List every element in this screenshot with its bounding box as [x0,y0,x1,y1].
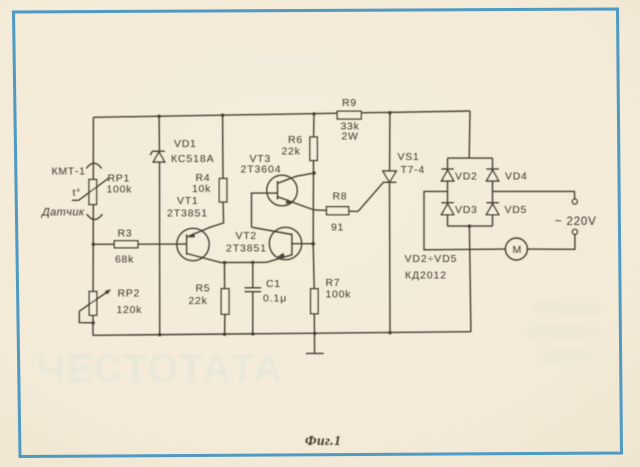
node dot R5 tap [223,261,226,264]
sensor enclosure top arc [86,163,101,168]
svg-text:t°: t° [73,187,82,199]
node dot VT3 collector [312,171,316,175]
transistor VT3 circle [267,175,298,206]
wire lower terminal to motor [527,234,575,249]
transistor VT2 circle [269,227,301,259]
diode VD5 [486,204,498,215]
VD1 zener tick [150,151,152,155]
wire R5 bottom [224,314,226,334]
svg-text:VD4: VD4 [505,171,528,183]
wire R4 to VT1 collector [187,202,224,237]
node dot top rail at VS1 [388,111,391,114]
svg-text:2Т3604: 2Т3604 [241,164,282,176]
svg-text:VD5: VD5 [505,204,528,216]
sensor enclosure bottom arc [87,214,103,219]
svg-text:VT1: VT1 [177,195,198,207]
svg-text:Датчик: Датчик [40,207,85,219]
VT2 base bar [291,233,293,255]
svg-text:10k: 10k [192,183,211,195]
node dot R3 left rail [92,243,95,246]
wire VT2 collector to VT3 base [252,193,278,227]
svg-text:КД2012: КД2012 [405,270,447,282]
node dot C1 tap [251,261,254,264]
svg-text:RP2: RP2 [118,288,141,300]
wire bridge right branch [492,158,494,226]
RP2 arrowhead [105,289,111,294]
svg-text:100k: 100k [326,289,352,301]
thyristor VS1 triangle [383,171,397,182]
VD1 cathode bar [152,150,164,152]
svg-text:R3: R3 [118,228,133,240]
VT3 base bar [277,181,279,200]
diode VD4 [486,170,498,181]
wire R6 bottom to VT2 base node [312,161,314,244]
svg-text:R7: R7 [326,277,341,289]
wire top rail [93,111,470,117]
node dot VT2 base [311,242,315,246]
svg-text:100k: 100k [107,184,133,196]
VD2 cathode bar [441,168,453,170]
svg-text:0.1μ: 0.1μ [263,293,287,305]
wire bridge left branch [447,158,449,226]
wire left rail lower [92,315,94,335]
wire top-right corner to bridge top [468,111,471,158]
VD3 cathode bar [441,202,453,204]
wire bridge bottom feed [469,226,471,332]
ground [306,352,324,354]
wire VS1 cathode down [389,182,392,332]
svg-text:VD2: VD2 [455,171,478,183]
svg-text:R9: R9 [342,97,357,109]
resistor R8 [327,207,349,215]
svg-text:Т7-4: Т7-4 [401,164,425,176]
wire left rail upper [92,117,94,179]
RP2 arrow diagonal [79,291,109,312]
node dot bridge bottom [468,224,471,227]
resistor R6 [310,137,317,161]
motor M [505,238,527,260]
wire C1 top lead [252,262,254,287]
VD4 cathode bar [486,168,498,170]
node dot bottom rail at VD1 [158,333,161,336]
svg-text:M: M [513,244,522,256]
capacitor C1 plates [245,287,262,289]
diode VD3 [441,204,453,215]
node dot bottom rail at C1 [251,332,254,335]
node dot RP2 wiper [92,321,95,324]
VD5 cathode bar [486,202,498,204]
VT1 base bar [186,234,188,254]
svg-text:R5: R5 [196,283,211,295]
wire R5 lead [224,263,226,289]
wire bridge top bar [448,157,493,159]
wire bridge left AC stub [424,191,505,249]
svg-text:22k: 22k [189,295,208,307]
wire VS1 anode [389,113,391,171]
node dot top rail at VD1 [157,115,160,118]
svg-text:2Т3851: 2Т3851 [226,243,267,255]
diode VD2 [441,170,453,181]
svg-text:91: 91 [331,222,344,234]
resistor R4 [219,179,227,203]
thermistor RP1 [89,180,97,205]
resistor R3 [114,241,138,248]
transistor VT1 circle [177,228,209,260]
VT3 emitter lead [278,197,314,210]
svg-text:2W: 2W [342,131,359,143]
resistor R9 [337,111,361,119]
svg-text:22k: 22k [282,146,301,158]
wire bridge right AC stub to terminal [493,191,575,199]
svg-text:Фиг.1: Фиг.1 [305,433,341,448]
svg-text:68k: 68k [115,254,134,266]
VT2 emitter arrow [277,253,285,258]
svg-text:C1: C1 [266,278,281,290]
terminal upper [572,199,577,204]
ghost bleed-through smudges [528,303,599,361]
wire R8 row [314,210,358,212]
VT2 base lead to right node [292,243,313,245]
node dot top rail at R4 [221,114,224,117]
wire C1 bottom lead [252,292,254,334]
wire R7 bottom + ground stub [313,314,315,354]
wire shared emitter rail [221,261,267,263]
RP1 thermistor diagonal with foot [72,178,109,200]
svg-text:2Т3851: 2Т3851 [167,208,208,220]
wire R3 row [93,243,186,245]
svg-text:~ 220V: ~ 220V [555,216,597,228]
node dot bottom rail at R5 [223,333,226,336]
terminal lower [572,229,577,234]
svg-text:R6: R6 [288,134,303,146]
svg-text:КС518А: КС518А [171,153,215,165]
resistor R7 [311,289,319,314]
svg-text:R8: R8 [333,191,348,203]
wire VS1 gate [358,182,383,211]
resistor R5 [221,289,229,315]
svg-text:VD2÷VD5: VD2÷VD5 [405,253,458,265]
potentiometer RP2 [89,292,97,316]
wire VD1 branch vertical [158,116,160,151]
VT2 collector lead up-left [252,227,292,234]
node dot bottom rail at VS1 [388,331,391,334]
VT2 emitter lead down-left [267,255,292,262]
wire left rail middle [92,205,94,292]
wire VT2 base node to R7 [313,244,314,289]
svg-text:ЧЕСТОТАТА: ЧЕСТОТАТА [37,347,283,391]
wire R6 column [313,114,315,137]
node dot top rail at R6 [312,112,315,115]
node dot bottom rail at R7 [313,332,316,335]
wire R4 column top [222,115,224,178]
wire bridge bottom bar [448,225,493,227]
svg-text:VD3: VD3 [455,204,478,216]
VT1 lower lead to emitter rail [187,254,221,263]
VT3 collector lead [278,173,315,183]
VS1 cathode bar [383,181,397,183]
svg-text:VT2: VT2 [236,230,257,242]
zener diode VD1 [153,152,165,162]
VT1 emitter arrow (on upper lead, pointing at bar) [189,233,196,238]
wire bottom rail [93,332,471,336]
svg-text:КМТ-1: КМТ-1 [52,166,86,178]
svg-text:120k: 120k [117,304,143,316]
svg-text:VS1: VS1 [398,151,420,163]
RP2 wiper arm [79,311,93,323]
VT3 emitter arrow [286,199,293,204]
svg-text:VD1: VD1 [174,138,197,150]
